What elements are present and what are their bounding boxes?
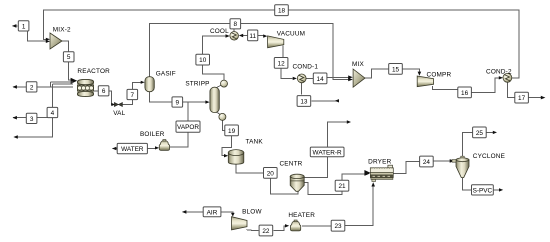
node stream box 17 [515, 92, 529, 103]
node stream box 3 [26, 113, 37, 123]
wire stream 8 GASIF top to MIX [150, 23, 353, 81]
wire stream 10 STRIPP condenser to COOL [203, 34, 230, 87]
blower BLOW [232, 217, 248, 230]
mixer MIX-2 [50, 33, 62, 49]
mixer MIX [353, 69, 365, 87]
svg-text:HEATER: HEATER [288, 212, 315, 219]
node stream box 15 [389, 64, 403, 75]
svg-text:12: 12 [278, 60, 286, 67]
wire stream 7 VAL to GASIF [122, 81, 144, 105]
node stream box 11 [248, 30, 258, 41]
compressor COMPR [417, 76, 433, 87]
node stream box 22 [259, 225, 273, 236]
svg-text:7: 7 [131, 92, 135, 99]
node stream box 13 [297, 96, 311, 107]
svg-text:COOL: COOL [210, 28, 229, 35]
wire stream 22 BLOW to HEATER [247, 224, 290, 230]
node stream box 18 [275, 5, 289, 16]
svg-text:25: 25 [476, 130, 484, 137]
wire WATER-R centrifuge water out [304, 120, 351, 177]
wire stream 17 COND-2 product [507, 82, 545, 99]
svg-text:S-PVC: S-PVC [473, 187, 493, 194]
svg-text:21: 21 [338, 183, 346, 190]
svg-text:VAPOR: VAPOR [177, 124, 199, 131]
wire reactor feed line A [51, 82, 74, 87]
wire stream 12 VACUUM to COND-1 [281, 45, 297, 80]
wire reactor feed line B [52, 84, 73, 107]
svg-text:4: 4 [51, 110, 55, 117]
heat exchanger COOL [230, 32, 239, 41]
wire AIR feed to BLOW [182, 210, 235, 217]
svg-text:BOILER: BOILER [140, 131, 165, 138]
tank TANK [228, 150, 244, 165]
node stream box WATER [117, 143, 147, 153]
svg-text:11: 11 [249, 33, 256, 40]
wire stream 24 DRYER to CYCLONE [394, 159, 455, 173]
heat exchanger COND-1 [297, 74, 306, 83]
wire stream 5 MIX-2 to REACTOR [62, 41, 71, 80]
svg-text:CYCLONE: CYCLONE [473, 153, 505, 160]
wire stream 1 feed [12, 24, 48, 41]
node stream box 5 [63, 52, 74, 62]
node REACTOR inlet arrow [71, 78, 78, 84]
reactor REACTOR [77, 79, 93, 96]
wire stream 14 COND-1 to MIX [306, 75, 353, 79]
wire WATER feed to BOILER [112, 146, 159, 150]
node stream box 2 [26, 82, 37, 92]
svg-text:15: 15 [392, 66, 400, 73]
svg-text:16: 16 [461, 90, 469, 97]
wire stream 6 REACTOR to VAL [94, 91, 115, 106]
svg-text:TANK: TANK [246, 138, 264, 145]
svg-text:WATER-R: WATER-R [313, 149, 342, 156]
node stream box 10 [196, 54, 210, 65]
wire stream 13 COND-1 condensate [302, 83, 339, 103]
node stream box 23 [331, 220, 345, 231]
dryer DRYER [364, 165, 393, 181]
svg-text:1: 1 [22, 23, 26, 30]
svg-text:COMPR: COMPR [427, 72, 452, 79]
svg-text:WATER: WATER [121, 146, 144, 153]
svg-text:DRYER: DRYER [368, 158, 391, 165]
node stream box 9 [172, 97, 183, 107]
node stream box 25 [473, 127, 487, 138]
svg-text:2: 2 [30, 84, 34, 91]
svg-text:COND-1: COND-1 [292, 63, 318, 70]
svg-text:VACUUM: VACUUM [277, 31, 305, 38]
compressor VACUUM [268, 36, 284, 48]
svg-text:STRIPP: STRIPP [185, 80, 209, 87]
svg-text:8: 8 [234, 21, 238, 28]
svg-text:5: 5 [67, 54, 71, 61]
svg-text:GASIF: GASIF [156, 71, 176, 78]
svg-text:20: 20 [267, 170, 275, 177]
node stream box 8 [230, 19, 241, 29]
wire stream 18 recycle COND-2 to MIX-2 [43, 10, 519, 78]
node stream box WATER-R [310, 147, 344, 157]
cyclone CYCLONE [452, 156, 469, 177]
wire VAPOR steam line to stream 9 junction [170, 102, 188, 147]
wire S-PVC CYCLONE bottoms [463, 177, 504, 191]
svg-text:18: 18 [278, 8, 286, 15]
svg-text:9: 9 [176, 99, 180, 106]
svg-text:REACTOR: REACTOR [77, 68, 110, 75]
svg-text:23: 23 [334, 223, 342, 230]
node stream box 7 [127, 89, 138, 99]
node stream box 16 [458, 87, 472, 98]
node stream box 6 [98, 86, 109, 96]
node stream box 21 [335, 180, 349, 191]
node stream box 12 [274, 58, 288, 69]
wire stream 19 STRIPP reboiler to TANK [217, 112, 232, 157]
wire stream 21 CENTR to DRYER [304, 172, 370, 195]
node stream box 4 [47, 107, 58, 117]
heat exchanger COND-2 [503, 73, 512, 82]
node stream box S-PVC [472, 185, 494, 195]
svg-text:MIX-2: MIX-2 [53, 27, 71, 34]
svg-text:BLOW: BLOW [242, 208, 262, 215]
wire COOL stub to stream 8 box [233, 29, 235, 32]
flash drum GASIF [145, 77, 154, 92]
node stream box VAPOR [176, 121, 200, 132]
svg-text:6: 6 [102, 88, 106, 95]
wire stream 16 COMPR to COND-2 [432, 76, 503, 92]
svg-text:17: 17 [518, 95, 526, 102]
svg-text:22: 22 [262, 228, 270, 235]
node stream box AIR [203, 207, 221, 217]
wire stream 23 HEATER to DRYER [302, 182, 375, 226]
wire stream 3 feed [13, 116, 53, 120]
wire stream 25 CYCLONE overhead [463, 131, 498, 157]
svg-text:14: 14 [317, 76, 325, 83]
wire stream 20 TANK to CENTR [236, 164, 300, 194]
node stream box 20 [264, 168, 278, 179]
node stream box 1 [18, 21, 29, 31]
column STRIPP [210, 80, 228, 120]
node stream box 19 [225, 125, 239, 136]
svg-text:VAL: VAL [113, 110, 125, 117]
node stream box 24 [420, 156, 434, 167]
svg-text:CENTR: CENTR [279, 160, 302, 167]
node stream box 14 [313, 73, 327, 84]
wire stream 9 GASIF bottom to STRIPP [150, 92, 210, 104]
centrifuge CENTR [290, 174, 304, 191]
valve VAL [114, 103, 122, 107]
svg-text:AIR: AIR [207, 209, 218, 216]
node MIX-2 inlet arrows [46, 38, 50, 43]
wire stream 15 MIX to COMPR [365, 69, 421, 78]
wire stream 11 COOL to VACUUM [239, 34, 268, 38]
svg-text:COND-2: COND-2 [486, 69, 512, 76]
svg-text:MIX: MIX [352, 61, 364, 68]
boiler BOILER [159, 140, 169, 151]
svg-text:10: 10 [199, 57, 207, 64]
svg-text:3: 3 [30, 116, 34, 123]
svg-text:19: 19 [228, 128, 236, 135]
heater HEATER [291, 220, 301, 231]
svg-text:24: 24 [423, 159, 431, 166]
svg-text:13: 13 [300, 99, 308, 106]
wire stream 2 feed line C [13, 85, 74, 89]
wire stream 4 outlet elbow [13, 118, 52, 139]
